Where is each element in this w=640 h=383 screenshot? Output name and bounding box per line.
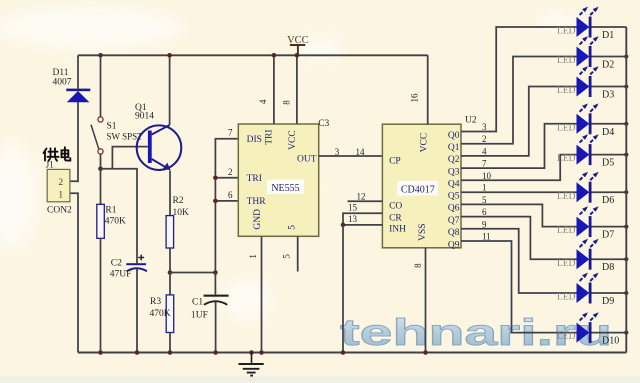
wire LED D6 cathode to bus (592, 191, 627, 193)
capacitor C1 1UF (191, 295, 229, 321)
wire 555 pin1 to bottom rail (261, 236, 263, 352)
svg-text:47UF: 47UF (110, 269, 132, 279)
node bus D6 (624, 190, 628, 194)
wire CR pin15 to ground bus (343, 213, 382, 225)
wire CD4017 Q9 pin11 to LED D10 (461, 241, 577, 333)
wire J1 pin1 to bottom rail (70, 193, 78, 352)
svg-text:D5: D5 (602, 158, 614, 169)
svg-text:OUT: OUT (297, 155, 317, 165)
svg-text:Q0: Q0 (448, 131, 460, 141)
svg-text:LED: LED (557, 332, 576, 342)
svg-text:Q5: Q5 (448, 192, 460, 202)
wire LED D9 cathode to bus (592, 292, 627, 294)
op-amp U1 NE555 (238, 124, 318, 236)
wire 555 pin6 stub (215, 200, 238, 202)
connector J1 CON2 (46, 160, 72, 216)
svg-text:CP: CP (389, 156, 401, 166)
svg-text:D6: D6 (602, 195, 614, 206)
wire 555 pins 7/2/6 bus (215, 139, 238, 273)
wire CD4017 Q0 pin3 to LED D1 (461, 27, 577, 132)
wire CD4017 Q2 pin4 to LED D3 (461, 87, 577, 156)
switch S1 SW SPST (91, 117, 143, 154)
svg-text:LED: LED (557, 56, 576, 66)
wire node C to C1 (214, 273, 216, 295)
svg-text:S1: S1 (107, 121, 117, 131)
svg-text:VCC: VCC (419, 133, 429, 153)
svg-text:D9: D9 (602, 296, 614, 307)
svg-text:Q3: Q3 (448, 167, 460, 177)
svg-text:10: 10 (482, 171, 492, 181)
svg-text:LED: LED (557, 86, 576, 96)
wire node B down to R3 (169, 273, 171, 295)
wire CD4017 Q5 pin1 to LED D6 (461, 191, 577, 193)
svg-text:J1: J1 (46, 160, 54, 170)
svg-text:TRI: TRI (265, 129, 275, 144)
svg-text:13: 13 (348, 214, 358, 224)
svg-text:3: 3 (482, 122, 487, 132)
svg-text:14: 14 (356, 147, 366, 157)
wire S1 to node A (100, 154, 102, 169)
svg-text:7: 7 (482, 159, 487, 169)
transistor Q1 9014 (135, 103, 181, 170)
svg-text:D2: D2 (602, 60, 614, 71)
svg-text:3: 3 (335, 147, 340, 157)
LED D7 (557, 206, 614, 240)
wire 555 pin4 to rail (273, 55, 275, 124)
svg-text:LED: LED (557, 192, 576, 202)
VCC power symbol (287, 35, 309, 56)
wire diode to J1 pin2 (70, 102, 78, 181)
wire 555 pin5 stub (297, 236, 299, 271)
svg-text:LED: LED (557, 226, 576, 236)
wire CD4017 Q4 pin10 to LED D5 (461, 155, 577, 181)
svg-text:LED: LED (557, 259, 576, 269)
node bus D5 (624, 153, 628, 157)
LED D3 (557, 66, 614, 100)
node C junction (213, 270, 218, 275)
svg-text:D1: D1 (602, 30, 614, 41)
svg-text:9014: 9014 (135, 112, 154, 122)
resistor R2 10K (166, 196, 189, 248)
node bus D8 (624, 257, 628, 261)
svg-text:16: 16 (410, 93, 420, 103)
svg-text:CON2: CON2 (47, 206, 72, 216)
svg-text:LED: LED (557, 293, 576, 303)
wire LED D7 cathode to bus (592, 226, 627, 228)
svg-text:Q4: Q4 (448, 180, 460, 190)
svg-text:Q9: Q9 (448, 240, 460, 250)
ground symbol (239, 350, 264, 375)
svg-text:U2: U2 (465, 115, 477, 125)
svg-text:R3: R3 (150, 297, 161, 307)
svg-text:12: 12 (357, 192, 366, 202)
node bus D3 (624, 84, 628, 88)
svg-text:INH: INH (389, 225, 406, 235)
svg-text:1: 1 (248, 254, 258, 259)
wire LED D5 cathode to bus (592, 154, 627, 156)
wire CR/INH to bottom rail (342, 225, 344, 353)
wire 555 OUT to CD4017 CP (319, 155, 383, 157)
wire 555 pin2 stub (215, 177, 238, 179)
svg-text:D8: D8 (602, 262, 614, 273)
wire CD4017 Q7 pin6 to LED D8 (461, 217, 577, 260)
svg-text:1UF: 1UF (191, 311, 208, 321)
wire node A to C2 top (101, 169, 138, 263)
wire CD4017 Q3 pin7 to LED D4 (461, 124, 577, 168)
LED D10 (557, 312, 619, 346)
wire VSS pin8 to bottom rail (425, 248, 427, 353)
wire top VCC rail (78, 54, 428, 56)
wire Q1 collector to rail (169, 55, 171, 125)
wire node B to 555 bus (170, 272, 215, 274)
svg-text:CO: CO (389, 202, 402, 212)
wire node A to Q1 base (112, 147, 147, 169)
resistor R1 470K (97, 204, 126, 238)
svg-text:4: 4 (258, 99, 268, 104)
node bus D2 (624, 54, 628, 58)
node bus D4 (624, 122, 628, 126)
svg-text:470K: 470K (105, 217, 126, 227)
node CR/INH junction (341, 223, 346, 228)
svg-text:470K: 470K (150, 309, 171, 319)
svg-text:2: 2 (228, 167, 233, 177)
svg-text:8: 8 (282, 100, 292, 105)
LED D6 (557, 172, 614, 206)
LED D9 (557, 273, 614, 307)
svg-text:D7: D7 (602, 230, 614, 241)
svg-text:Q6: Q6 (448, 204, 460, 214)
svg-text:CR: CR (389, 213, 402, 223)
svg-text:1: 1 (482, 183, 487, 193)
node A junction (98, 167, 103, 172)
wire C1 to bottom rail (215, 302, 217, 353)
svg-text:LED: LED (557, 154, 576, 164)
resistor R3 470K (150, 295, 174, 333)
svg-text:Q1: Q1 (448, 143, 460, 153)
wire CO stub pin12 (348, 200, 383, 202)
wire node A down to R1 (100, 169, 102, 205)
node B junction (168, 270, 173, 275)
svg-text:LED: LED (557, 27, 576, 37)
wire LED D3 cathode to bus (592, 86, 627, 88)
wire 555 pin8 to rail (296, 55, 298, 124)
watermark (340, 312, 614, 355)
wire R3 to bottom rail (169, 333, 171, 353)
svg-text:CD4017: CD4017 (401, 184, 435, 195)
wire CD4017 Q8 pin9 to LED D9 (461, 229, 577, 293)
wire LED cathode bus (625, 27, 627, 353)
wire CD4017 Q6 pin5 to LED D7 (461, 204, 577, 226)
供电 label (44, 147, 71, 161)
svg-text:VSS: VSS (418, 223, 428, 240)
svg-text:11: 11 (482, 232, 491, 242)
LED D5 (557, 134, 614, 168)
IC U2 CD4017 (382, 124, 461, 248)
svg-text:2: 2 (58, 178, 63, 188)
svg-text:GND: GND (253, 209, 263, 230)
wire INH pin13 (343, 224, 382, 226)
svg-text:D3: D3 (602, 90, 614, 101)
svg-text:4007: 4007 (53, 78, 72, 88)
svg-text:15: 15 (348, 203, 358, 213)
svg-text:8: 8 (413, 263, 423, 268)
wire LED D10 cathode to bus (592, 332, 627, 334)
svg-text:D4: D4 (602, 127, 614, 138)
svg-text:2: 2 (482, 134, 487, 144)
svg-text:D11: D11 (53, 68, 69, 78)
node top rail / S1 branch (98, 53, 103, 58)
wire LED D8 cathode to bus (592, 258, 627, 260)
wire LED D2 cathode to bus (592, 56, 627, 58)
svg-text:5: 5 (288, 225, 298, 230)
svg-text:C2: C2 (111, 258, 122, 268)
svg-text:7: 7 (228, 128, 233, 138)
svg-text:C3: C3 (318, 119, 329, 129)
node bus D7 (624, 225, 628, 229)
node bus D9 (624, 291, 628, 295)
wire Q1 emitter to R2 (169, 171, 171, 216)
wire left supply drop (top rail to diode) (77, 55, 79, 88)
svg-text:R1: R1 (105, 206, 116, 216)
diode D11 4007 (53, 68, 91, 102)
svg-text:VCC: VCC (288, 130, 298, 150)
wire LED D4 cathode to bus (592, 123, 627, 125)
svg-text:5: 5 (482, 195, 487, 205)
svg-text:C1: C1 (192, 298, 203, 308)
wire bottom ground rail (78, 352, 626, 354)
LED D8 (557, 239, 614, 273)
LED D1 (557, 7, 614, 41)
wire R1 to bottom rail (100, 238, 102, 352)
svg-text:9: 9 (482, 219, 487, 229)
svg-text:TRI: TRI (247, 174, 262, 184)
svg-text:D10: D10 (602, 336, 619, 347)
svg-text:1: 1 (58, 190, 63, 200)
svg-text:NE555: NE555 (271, 183, 299, 194)
capacitor C2 47UF polarized (110, 255, 147, 280)
wire rail to pin16 (427, 55, 429, 124)
svg-text:DIS: DIS (247, 135, 262, 145)
svg-text:R2: R2 (173, 196, 184, 206)
svg-text:5: 5 (282, 254, 292, 259)
svg-text:LED: LED (557, 123, 576, 133)
node bus D10 (624, 331, 628, 335)
svg-text:Q7: Q7 (448, 216, 460, 226)
wire CD4017 Q1 pin2 to LED D2 (461, 57, 577, 144)
svg-text:4: 4 (482, 146, 487, 156)
wire R2 to node B (169, 248, 171, 273)
LED D2 (557, 36, 614, 70)
svg-text:6: 6 (228, 190, 233, 200)
wire LED D1 cathode to bus (592, 26, 627, 28)
LED D4 (557, 103, 614, 137)
wire rail to S1 (100, 55, 102, 116)
svg-text:THR: THR (247, 197, 267, 207)
svg-text:10K: 10K (173, 208, 190, 218)
svg-text:Q2: Q2 (448, 155, 460, 165)
wire C2 to bottom rail (136, 269, 138, 353)
svg-text:6: 6 (482, 207, 487, 217)
svg-text:Q8: Q8 (448, 228, 460, 238)
